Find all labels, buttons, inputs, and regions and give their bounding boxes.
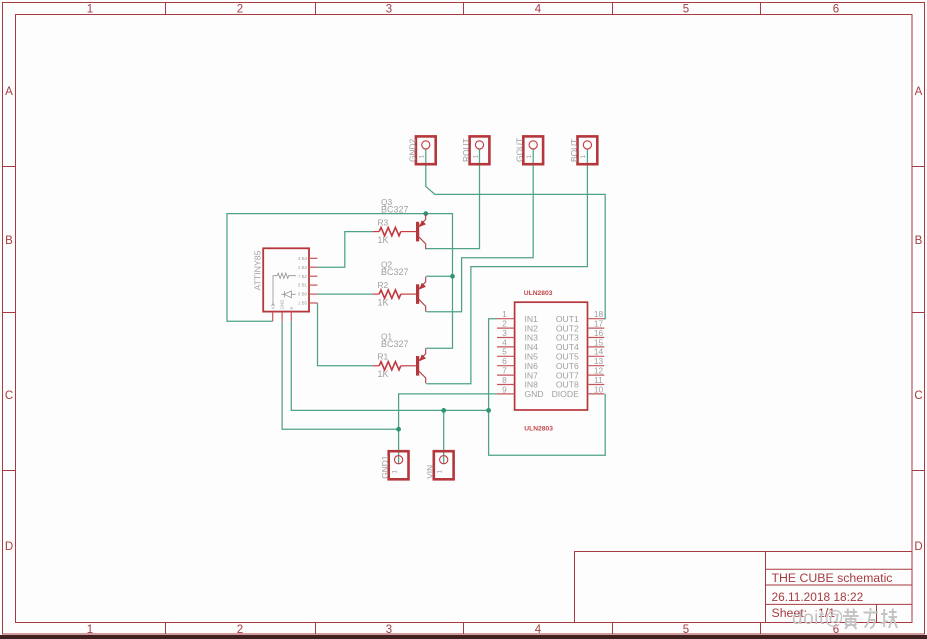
svg-text:VIN: VIN <box>425 465 435 479</box>
junction Q3 emitter / VCC <box>423 211 428 216</box>
svg-text:1K: 1K <box>378 369 389 379</box>
junction VIN rail / VIN connector <box>441 408 446 413</box>
resistor R3 1K <box>373 217 417 245</box>
svg-text:ULN2803: ULN2803 <box>524 425 553 432</box>
wire GND2 to ULN2803 pin 18 OUT1 <box>426 149 605 319</box>
svg-text:6 B0: 6 B0 <box>298 292 308 297</box>
junction VIN rail / IN1 loop <box>486 408 491 413</box>
svg-text:THE CUBE schematic: THE CUBE schematic <box>772 571 893 585</box>
transistor Q1 BC327 (PNP) <box>381 331 426 383</box>
U2 input pin names IN1-IN8, GND <box>525 314 544 399</box>
svg-text:3: 3 <box>386 624 392 636</box>
connector BOUT <box>569 136 597 164</box>
svg-text:4: 4 <box>535 4 542 16</box>
IC U1 ATTINY85 <box>253 248 318 321</box>
svg-text:R3: R3 <box>378 217 389 227</box>
resistor R1 1K <box>373 352 417 380</box>
wire ATTINY85 PB0 to R1 <box>318 303 373 366</box>
svg-text:D: D <box>914 541 922 553</box>
wire ATTINY85 PB1 to R2 <box>318 293 373 295</box>
svg-text:5 B1: 5 B1 <box>298 283 308 288</box>
svg-text:GOUT: GOUT <box>515 138 525 162</box>
svg-text:1: 1 <box>419 155 426 159</box>
svg-text:7 B2: 7 B2 <box>298 274 308 279</box>
svg-text:C: C <box>5 390 13 402</box>
connector VIN <box>425 451 453 479</box>
svg-text:1: 1 <box>391 470 398 474</box>
wire GND rail: ULN2803 GND pin to GND1 <box>399 394 497 464</box>
svg-text:1: 1 <box>472 155 479 159</box>
U1 right pin stubs <box>309 258 318 303</box>
svg-text:BC327: BC327 <box>381 205 409 215</box>
U2 left pin numbers 1-9 <box>502 309 507 394</box>
svg-text:R1: R1 <box>378 352 389 362</box>
wire ATTINY85 GND pin to GND rail <box>282 321 399 429</box>
svg-text:C: C <box>914 390 922 402</box>
U2 right pin numbers 18-10 <box>594 309 604 394</box>
svg-text:DIODE: DIODE <box>552 389 579 399</box>
svg-text:4: 4 <box>535 624 542 636</box>
svg-text:9: 9 <box>502 384 507 394</box>
U1 right pin name/number labels <box>298 256 308 306</box>
svg-text:1: 1 <box>580 155 587 159</box>
svg-text:10: 10 <box>594 384 604 394</box>
wire GOUT to Q2 collector <box>426 149 533 312</box>
svg-text:B: B <box>915 235 923 247</box>
svg-text:R2: R2 <box>378 280 389 290</box>
svg-text:ROUT: ROUT <box>461 138 471 162</box>
connector GOUT <box>515 136 543 164</box>
transistor Q3 BC327 (PNP) <box>381 197 426 249</box>
svg-text:2 B3: 2 B3 <box>298 265 308 270</box>
svg-text:ULN2803: ULN2803 <box>524 290 553 297</box>
wire ROUT to Q3 collector <box>426 149 479 249</box>
svg-text:2: 2 <box>237 624 243 636</box>
connector GND1 <box>380 451 408 479</box>
U2 output pin names OUT1-OUT8, DIODE <box>552 314 579 399</box>
svg-text:1K: 1K <box>378 235 389 245</box>
U2 right pin stubs 18-10 <box>588 319 605 394</box>
svg-text:ATTINY85: ATTINY85 <box>253 250 263 290</box>
svg-text:1: 1 <box>526 155 533 159</box>
svg-text:6: 6 <box>833 4 839 16</box>
svg-text:5: 5 <box>683 624 689 636</box>
svg-text:BOUT: BOUT <box>569 139 579 162</box>
U2 left pin stubs 1-9 <box>497 319 515 394</box>
svg-text:GND1: GND1 <box>380 455 390 479</box>
svg-text:5: 5 <box>683 4 689 16</box>
svg-text:B: B <box>5 235 13 247</box>
connector GND2 <box>407 136 435 164</box>
svg-text:BC327: BC327 <box>381 339 409 349</box>
wire VCC net: ATTINY85 VCC pin to Q3/Q2/Q1 emitters <box>227 214 453 349</box>
svg-text:1: 1 <box>437 470 444 474</box>
svg-text:GND: GND <box>525 389 544 399</box>
svg-text:1K: 1K <box>378 297 389 307</box>
svg-text:1 B5: 1 B5 <box>298 301 308 306</box>
U1 internal diode symbol <box>281 291 295 298</box>
svg-text:2: 2 <box>237 4 243 16</box>
wire Q2 emitter tap to VCC vertical <box>426 275 452 277</box>
wire ATTINY85 PB3 to R3 <box>318 232 373 268</box>
U1 internal pull-up resistor symbol <box>272 273 296 306</box>
wire ULN2803 IN1 loop to pin 10 DIODE <box>489 319 606 456</box>
svg-text:26.11.2018 18:22: 26.11.2018 18:22 <box>772 590 864 604</box>
connector ROUT <box>461 136 489 164</box>
wire BOUT to Q1 collector <box>426 149 587 384</box>
svg-text:A: A <box>915 86 923 98</box>
svg-text:A: A <box>5 86 13 98</box>
svg-text:D: D <box>5 541 13 553</box>
svg-text:BC327: BC327 <box>381 267 409 277</box>
junction Q2 emitter / VCC <box>450 274 455 279</box>
svg-text:1: 1 <box>87 4 93 16</box>
transistor Q2 BC327 (PNP) <box>381 260 426 312</box>
U1 bottom pin name labels <box>270 300 294 310</box>
IC U2 ULN2803 <box>497 290 604 433</box>
svg-text:1: 1 <box>87 624 93 636</box>
wire VIN drop to VIN connector <box>443 410 445 464</box>
svg-text:GND: GND <box>280 300 285 310</box>
wire VIN rail from ATTINY85 bottom pin <box>291 321 488 410</box>
svg-text:3 B4: 3 B4 <box>298 256 308 261</box>
svg-text:doit@: doit@ <box>792 608 844 629</box>
resistor R2 1K <box>373 280 417 308</box>
svg-text:3: 3 <box>386 4 392 16</box>
junction GND rail / ATTINY85 GND <box>396 427 401 432</box>
svg-text:GND2: GND2 <box>407 138 417 162</box>
U1 bottom pin stubs <box>273 312 292 322</box>
